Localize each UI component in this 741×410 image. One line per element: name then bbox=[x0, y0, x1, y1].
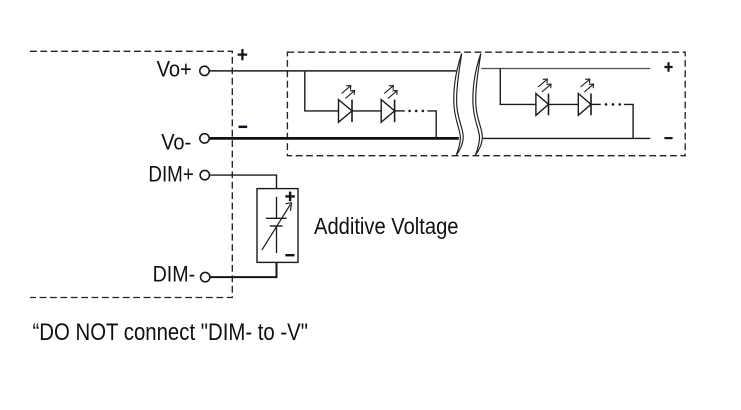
additive voltage source B1 box bbox=[257, 189, 298, 263]
polarity mark - at Vo- wire bbox=[239, 126, 248, 129]
terminal Vo+ bbox=[200, 66, 209, 75]
LED D3 bbox=[536, 94, 549, 116]
break mark squiggle 1 bbox=[454, 54, 463, 156]
terminal DIM- bbox=[201, 272, 210, 281]
svg-text:Vo-: Vo- bbox=[161, 129, 191, 154]
wire DIM+ to additive voltage source bbox=[210, 175, 277, 189]
terminal DIM+ bbox=[200, 170, 209, 179]
polarity mark + at LED module right bbox=[664, 62, 672, 72]
wire top right of break bbox=[481, 68, 650, 70]
svg-text:Vo+: Vo+ bbox=[157, 56, 192, 81]
LED D2 light arrows bbox=[384, 86, 397, 99]
LED D2 bbox=[381, 100, 394, 123]
battery bottom lead bbox=[276, 226, 278, 253]
wire D2 to dots bbox=[395, 110, 405, 112]
wire Vo- thick to break bbox=[209, 137, 459, 140]
LED D1 bbox=[339, 100, 353, 123]
battery short plate bbox=[270, 225, 283, 227]
svg-text:Additive Voltage: Additive Voltage bbox=[314, 213, 459, 239]
variable arrow shaft bbox=[262, 205, 290, 251]
wire Vo+ to break bbox=[209, 70, 456, 72]
LED D3 light arrows bbox=[538, 79, 551, 92]
wire bottom right of break bbox=[483, 137, 651, 139]
wire DIM- to additive voltage source bbox=[210, 262, 277, 277]
LED D1 light arrows bbox=[342, 86, 355, 99]
svg-text:“DO NOT connect "DIM- to -V": “DO NOT connect "DIM- to -V" bbox=[33, 319, 309, 346]
wire string 2 return bbox=[624, 104, 633, 138]
driver module outline (left dashed box, open on left) bbox=[30, 51, 232, 297]
battery long plate bbox=[266, 217, 287, 219]
polarity mark - at LED module right bbox=[664, 137, 672, 139]
variable arrow head bbox=[286, 203, 292, 211]
break mark squiggle 2 bbox=[473, 54, 482, 156]
LED D4 light arrows bbox=[581, 79, 594, 92]
continuation dots string 2 bbox=[605, 103, 608, 106]
LED string 2 tap wire bbox=[500, 69, 536, 105]
svg-text:DIM+: DIM+ bbox=[148, 162, 193, 187]
polarity mark + at Vo+ wire bbox=[238, 49, 248, 60]
wire D3 to D4 bbox=[549, 103, 579, 105]
battery top lead bbox=[276, 197, 278, 218]
terminal Vo- bbox=[200, 134, 209, 143]
LED D4 bbox=[578, 94, 591, 116]
wire D1 to D2 bbox=[352, 110, 381, 112]
continuation dots string 1 bbox=[408, 110, 411, 113]
LED load module outline (right dashed box) bbox=[287, 52, 685, 156]
source polarity - bbox=[285, 254, 294, 256]
svg-text:DIM-: DIM- bbox=[153, 261, 196, 286]
source polarity + bbox=[285, 192, 294, 202]
wire string 1 return bbox=[427, 111, 436, 138]
wire D4 to dots bbox=[591, 103, 601, 105]
LED string 1 tap wire from Vo+ bbox=[305, 72, 339, 111]
